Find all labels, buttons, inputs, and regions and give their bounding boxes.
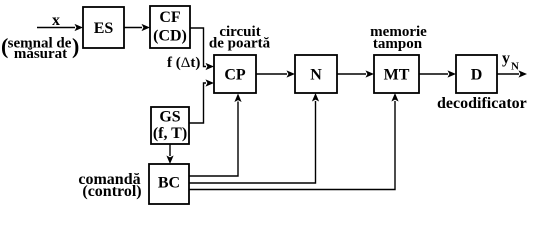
svg-text:de poartă: de poartă [209,36,271,52]
svg-text:GS: GS [159,109,180,126]
svg-text:CP: CP [224,67,246,84]
svg-text:N: N [511,61,519,73]
svg-text:N: N [310,67,322,84]
svg-text:MT: MT [384,67,410,84]
svg-text:D: D [471,67,483,84]
svg-text:(f, T): (f, T) [153,125,187,142]
svg-text:(CD): (CD) [153,28,187,45]
svg-text:): ) [72,34,79,59]
svg-text:măsurat: măsurat [14,46,67,62]
svg-text:x: x [52,12,60,29]
svg-text:tampon: tampon [373,36,423,52]
svg-text:f (Δt): f (Δt) [167,55,200,71]
svg-text:ES: ES [94,20,114,37]
svg-text:y: y [502,50,510,67]
svg-text:(control): (control) [82,183,141,200]
svg-text:CF: CF [159,9,181,26]
svg-text:BC: BC [158,175,180,192]
svg-text:(: ( [1,34,8,59]
svg-text:decodificator: decodificator [437,95,527,112]
